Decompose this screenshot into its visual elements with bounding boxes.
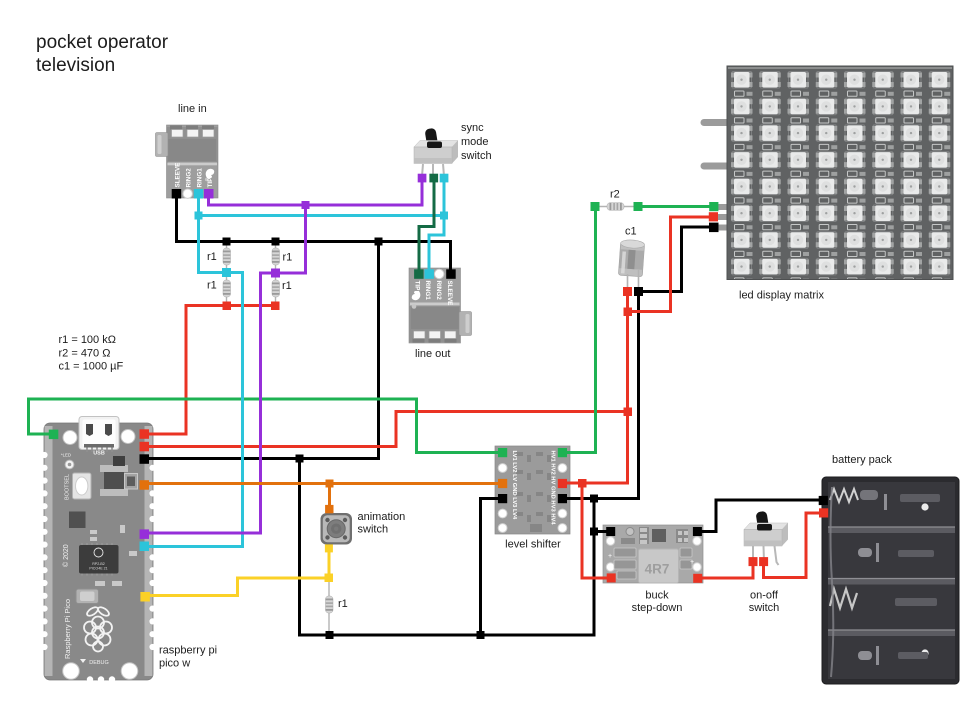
svg-text:r1: r1 <box>283 252 293 264</box>
pin battery red <box>819 508 828 517</box>
svg-text:buck: buck <box>645 590 669 602</box>
pin sync switch cyan <box>440 174 449 183</box>
wire red c1 positive rail down <box>582 292 628 484</box>
pin buck OUT+ red <box>607 573 616 582</box>
wire dark-green sync switch to line-out tip <box>419 178 434 273</box>
pin buck IN- black <box>606 527 615 536</box>
node green r2 right <box>634 202 643 211</box>
node green r2 left <box>591 202 600 211</box>
pin level shifter LV orange <box>498 479 507 488</box>
pin on-off switch red 2 <box>759 557 768 566</box>
wire purple line-in tip to sync switch <box>209 178 423 206</box>
pin sync switch dark-green <box>429 174 438 183</box>
pin pico cyan <box>140 542 150 552</box>
node orange j <box>326 480 334 488</box>
svg-text:r1 = 100 kΩ: r1 = 100 kΩ <box>59 334 116 346</box>
node red r1 j1 <box>223 302 232 311</box>
node black rail j2 <box>272 238 280 246</box>
svg-text:sync: sync <box>461 122 484 134</box>
pin line-in RING1 cyan <box>194 189 204 199</box>
svg-text:mode: mode <box>461 136 489 148</box>
wire red junction down to buck OUT+ <box>582 483 611 578</box>
svg-text:animation: animation <box>358 511 406 523</box>
svg-text:led display matrix: led display matrix <box>739 290 824 302</box>
sync mode slide switch <box>414 128 458 176</box>
svg-text:r1: r1 <box>282 280 292 292</box>
raspberry pi pico w board <box>41 417 155 683</box>
crystal <box>76 589 99 604</box>
node black buck gnd j2 <box>590 528 598 536</box>
svg-text:+: + <box>690 559 694 566</box>
svg-text:television: television <box>36 55 115 76</box>
battery pack <box>822 477 959 684</box>
pin animation switch yellow <box>325 544 333 552</box>
pin level shifter LV GND black <box>498 494 507 503</box>
pin pico purple <box>140 529 150 539</box>
pin level shifter HV red <box>558 479 567 488</box>
pin pico VBUS red <box>140 429 150 439</box>
animation switch push button <box>321 513 353 545</box>
led display matrix board <box>704 66 953 283</box>
pin sync switch purple <box>418 174 427 183</box>
pin line-out RING1 cyan <box>424 269 434 279</box>
svg-text:+: + <box>608 553 612 560</box>
debug tabs bottom <box>87 676 93 682</box>
wire black level shifter LV GND drop <box>481 499 503 636</box>
castellated pin notches <box>41 452 155 650</box>
resistor r2 lead <box>599 206 634 208</box>
svg-text:c1: c1 <box>625 226 637 238</box>
resistor r1 (top col1) <box>223 248 231 265</box>
svg-text:step-down: step-down <box>632 602 683 614</box>
wire orange pico to level shifter LV <box>145 482 503 485</box>
wire black buck to battery pack <box>698 500 824 532</box>
led <box>65 460 74 469</box>
wire cyan r1 junction to pico <box>145 273 243 547</box>
svg-text:on-off: on-off <box>750 590 779 602</box>
buck step-down board <box>603 525 703 583</box>
pin pico GND black <box>140 454 150 464</box>
svg-text:TIP: TIP <box>414 281 421 291</box>
rp2040 chip <box>79 545 119 574</box>
node black rail j1 <box>223 238 231 246</box>
node red junction C <box>578 479 587 488</box>
pin on-off switch red 1 <box>749 557 758 566</box>
svg-text:battery pack: battery pack <box>832 454 892 466</box>
resistor r1 col1 leads <box>226 245 228 302</box>
wire green HV1 up to r2 <box>563 207 596 453</box>
svg-text:switch: switch <box>461 150 492 162</box>
node black c1 minus <box>634 287 643 296</box>
resistor r1 (bottom col2) <box>272 280 280 297</box>
wire green r2 to led matrix <box>638 205 714 208</box>
wire green pico pin to level shifter LV1 <box>29 399 503 453</box>
node black bottom r1 j <box>326 631 334 639</box>
wire black buck gnd riser <box>593 499 596 636</box>
wire orange junction to animation switch <box>328 484 331 510</box>
micro usb <box>79 417 119 450</box>
line-in jack breakout <box>156 125 219 198</box>
pin battery black <box>819 496 828 505</box>
node red r1 j2 <box>271 302 280 311</box>
svg-text:LV1 LV2 LV GND LV3 LV4: LV1 LV2 LV GND LV3 LV4 <box>511 451 517 520</box>
svg-text:c1 = 1000 µF: c1 = 1000 µF <box>59 361 124 373</box>
pin animation switch orange <box>325 505 333 513</box>
svg-text:RP2-B2: RP2-B2 <box>92 562 105 566</box>
svg-text:SLEEVE: SLEEVE <box>446 281 453 306</box>
pin level shifter HV GND black <box>558 494 567 503</box>
pin level shifter LV1 green <box>498 448 507 457</box>
svg-text:BOOTSEL: BOOTSEL <box>65 474 71 500</box>
flash chip <box>69 512 86 529</box>
svg-text:RING1: RING1 <box>197 168 204 188</box>
svg-text:PICO4E 21: PICO4E 21 <box>89 567 107 571</box>
pin pico orange <box>140 480 150 490</box>
bootsel button <box>73 473 92 499</box>
resistor r2 <box>607 203 624 211</box>
svg-text:SLEEVE: SLEEVE <box>175 163 182 188</box>
node cyan sync j <box>440 212 448 220</box>
svg-text:r1: r1 <box>207 251 217 263</box>
resistor r1 (animation) <box>326 596 334 613</box>
wire black HV GND to c1 <box>563 292 639 499</box>
wire yellow animation switch through r1 link <box>145 549 329 596</box>
svg-text:TIP: TIP <box>207 178 214 188</box>
wire black line-in sleeve to ground rail <box>177 193 451 272</box>
pin buck IN+ red <box>693 574 702 583</box>
svg-text:© 2020: © 2020 <box>62 544 70 567</box>
svg-text:line in: line in <box>178 103 207 115</box>
svg-text:r1: r1 <box>338 598 348 610</box>
wire red pico VSYS to power net <box>145 412 628 447</box>
raspberry logo outline <box>84 606 112 652</box>
wire cyan cross link to sync switch <box>199 214 445 217</box>
pin line-in TIP purple <box>204 189 214 199</box>
pin pico VSYS red <box>140 442 150 452</box>
svg-text:*LED: *LED <box>61 453 71 458</box>
node cyan r1 j <box>222 268 231 277</box>
node black rail j3 <box>375 238 383 246</box>
svg-text:r2: r2 <box>610 189 620 201</box>
svg-text:RING2: RING2 <box>435 281 442 301</box>
node red junction B <box>624 408 633 417</box>
svg-text:pico w: pico w <box>159 658 190 670</box>
svg-text:RING1: RING1 <box>424 281 431 301</box>
svg-text:line out: line out <box>415 348 450 360</box>
svg-text:level shifter: level shifter <box>505 539 561 551</box>
pin pico GP green <box>49 430 59 440</box>
pin led matrix red <box>709 212 718 221</box>
node purple top j <box>302 201 310 209</box>
node red junction A <box>624 308 633 317</box>
svg-text:switch: switch <box>358 524 389 536</box>
capacitor c1 legs <box>627 274 629 288</box>
pin line-out RING2 hole <box>435 269 444 278</box>
svg-text:DEBUG: DEBUG <box>89 660 109 666</box>
pin buck OUT- black <box>693 527 702 536</box>
wire black rail junction to pico gnd <box>145 242 379 459</box>
wire red on-off switch to battery <box>764 513 824 578</box>
svg-text:pocket operator: pocket operator <box>36 32 169 53</box>
node black pico row j <box>296 455 304 463</box>
node black bottom lv j <box>477 631 485 639</box>
svg-text:r2 = 470 Ω: r2 = 470 Ω <box>59 348 111 360</box>
pin line-out SLEEVE black <box>446 269 456 279</box>
pin line-in SLEEVE <box>172 189 182 199</box>
node cyan line-in j <box>195 212 203 220</box>
resistor r1 col2 leads <box>275 245 277 302</box>
wire red buck IN+ to on-off switch <box>698 562 754 579</box>
node black buck gnd j1 <box>590 495 598 503</box>
line-out jack breakout <box>409 268 472 343</box>
wire cyan sync switch to line-out ring1 <box>429 178 444 273</box>
level shifter board <box>495 446 570 534</box>
svg-text:r1: r1 <box>207 280 217 292</box>
node yellow j <box>325 574 334 583</box>
pin pico yellow <box>140 592 150 602</box>
resistor r1 (bottom col1) <box>223 280 231 297</box>
regulator chips <box>104 469 124 493</box>
node purple r1 j <box>271 269 280 278</box>
wire cyan line-in ring1 down <box>197 193 200 273</box>
pin led matrix black <box>709 223 719 233</box>
wire black bottom ground rail <box>300 459 595 636</box>
pin led matrix green <box>709 202 718 211</box>
wire black junction to buck IN- <box>594 530 611 533</box>
resistor r1 center lead <box>328 582 330 631</box>
svg-text:HV1 HV2 HV GND HV3 HV4: HV1 HV2 HV GND HV3 HV4 <box>550 451 556 526</box>
svg-text:RING2: RING2 <box>186 168 193 188</box>
pin line-out TIP dark-green <box>414 269 424 279</box>
wire red pico VBUS to r1 pair <box>145 306 276 435</box>
svg-text:Raspberry Pi Pico: Raspberry Pi Pico <box>63 599 72 659</box>
svg-text:raspberry pi: raspberry pi <box>159 645 217 657</box>
pin level shifter HV1 green <box>558 448 567 457</box>
wire black c1 to led matrix <box>639 227 714 292</box>
svg-text:switch: switch <box>749 602 780 614</box>
node red c1 plus <box>623 287 632 296</box>
svg-text:USB: USB <box>93 451 105 457</box>
on-off slide switch <box>744 511 788 565</box>
mounting holes <box>63 431 77 445</box>
resistor r1 (top col2) <box>272 248 280 265</box>
svg-text:4R7: 4R7 <box>645 562 670 577</box>
wire purple junction to r1 and pico <box>145 205 306 533</box>
wire red HV pad to junction <box>563 482 583 485</box>
pin line-in RING2 hole <box>183 189 192 198</box>
capacitor c1 <box>618 239 644 289</box>
wire red power to led matrix <box>628 217 714 312</box>
